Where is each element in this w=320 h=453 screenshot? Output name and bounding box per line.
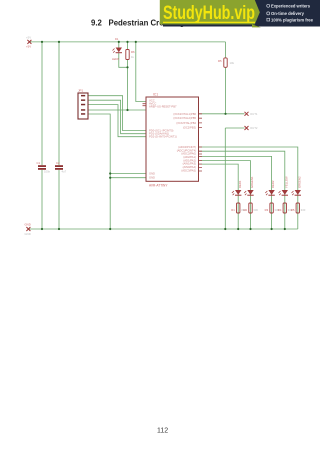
svg-text:(XCK2/XTAL1)PB6: (XCK2/XTAL1)PB6 — [173, 112, 196, 116]
svg-text:AVR-ATTINY: AVR-ATTINY — [149, 184, 168, 188]
svg-text:+5V: +5V — [26, 45, 31, 49]
svg-text:C2: C2 — [56, 161, 60, 165]
svg-text:JP1: JP1 — [78, 89, 84, 93]
svg-text:(XCK/XTAL)PB4: (XCK/XTAL)PB4 — [176, 121, 196, 125]
svg-text:10k: 10k — [230, 61, 235, 65]
svg-text:100% plagiarism free: 100% plagiarism free — [271, 17, 314, 22]
svg-text:R5: R5 — [291, 208, 295, 212]
svg-text:R3: R3 — [265, 208, 269, 212]
svg-text:Experienced writers: Experienced writers — [271, 3, 311, 8]
svg-text:OUT1: OUT1 — [250, 112, 258, 116]
svg-text:AREF-US-RESET-PB7: AREF-US-RESET-PB7 — [149, 105, 177, 109]
svg-text:330: 330 — [253, 208, 258, 212]
svg-text:112: 112 — [157, 428, 168, 435]
svg-text:On-time delivery: On-time delivery — [271, 11, 305, 16]
svg-text:OUT2: OUT2 — [250, 126, 258, 130]
svg-text:(OC2/PB3): (OC2/PB3) — [183, 126, 196, 130]
svg-text:C1: C1 — [37, 161, 41, 165]
svg-text:(AIN0/PA4): (AIN0/PA4) — [183, 165, 196, 169]
svg-text:GREEN2: GREEN2 — [297, 176, 301, 188]
svg-text:+5V: +5V — [26, 36, 31, 40]
svg-text:R1: R1 — [231, 208, 235, 212]
svg-text:D1: D1 — [115, 37, 119, 41]
svg-text:R2: R2 — [244, 208, 248, 212]
svg-text:StudyHub.vip: StudyHub.vip — [163, 3, 255, 24]
svg-text:100n: 100n — [44, 170, 51, 174]
svg-text:(ADC0/PCINT): (ADC0/PCINT) — [178, 145, 196, 149]
svg-text:4u7: 4u7 — [62, 170, 67, 174]
svg-text:R6: R6 — [131, 50, 135, 54]
svg-text:GND: GND — [25, 232, 31, 236]
svg-text:(ADC3/PA5): (ADC3/PA5) — [181, 168, 196, 172]
svg-text:(AD2/PA1): (AD2/PA1) — [183, 155, 196, 159]
svg-text:(XCK1/XTAL2)PB5: (XCK1/XTAL2)PB5 — [173, 116, 196, 120]
svg-text:330: 330 — [301, 208, 306, 212]
svg-text:LED6: LED6 — [112, 57, 119, 61]
svg-text:GREEN1: GREEN1 — [250, 176, 254, 188]
svg-text:GND: GND — [149, 172, 155, 176]
svg-text:9.2: 9.2 — [91, 19, 103, 28]
svg-text:RED1: RED1 — [238, 180, 242, 188]
svg-text:GND: GND — [149, 176, 155, 180]
svg-text:IC1: IC1 — [153, 93, 158, 97]
svg-text:GND: GND — [25, 223, 31, 227]
svg-text:RED2: RED2 — [271, 180, 275, 188]
svg-text:R5: R5 — [218, 59, 222, 63]
svg-text:YELLOW: YELLOW — [284, 176, 288, 188]
svg-text:R4: R4 — [278, 208, 282, 212]
svg-text:PD2-(D-/INT0-PCINT1): PD2-(D-/INT0-PCINT1) — [149, 135, 177, 139]
